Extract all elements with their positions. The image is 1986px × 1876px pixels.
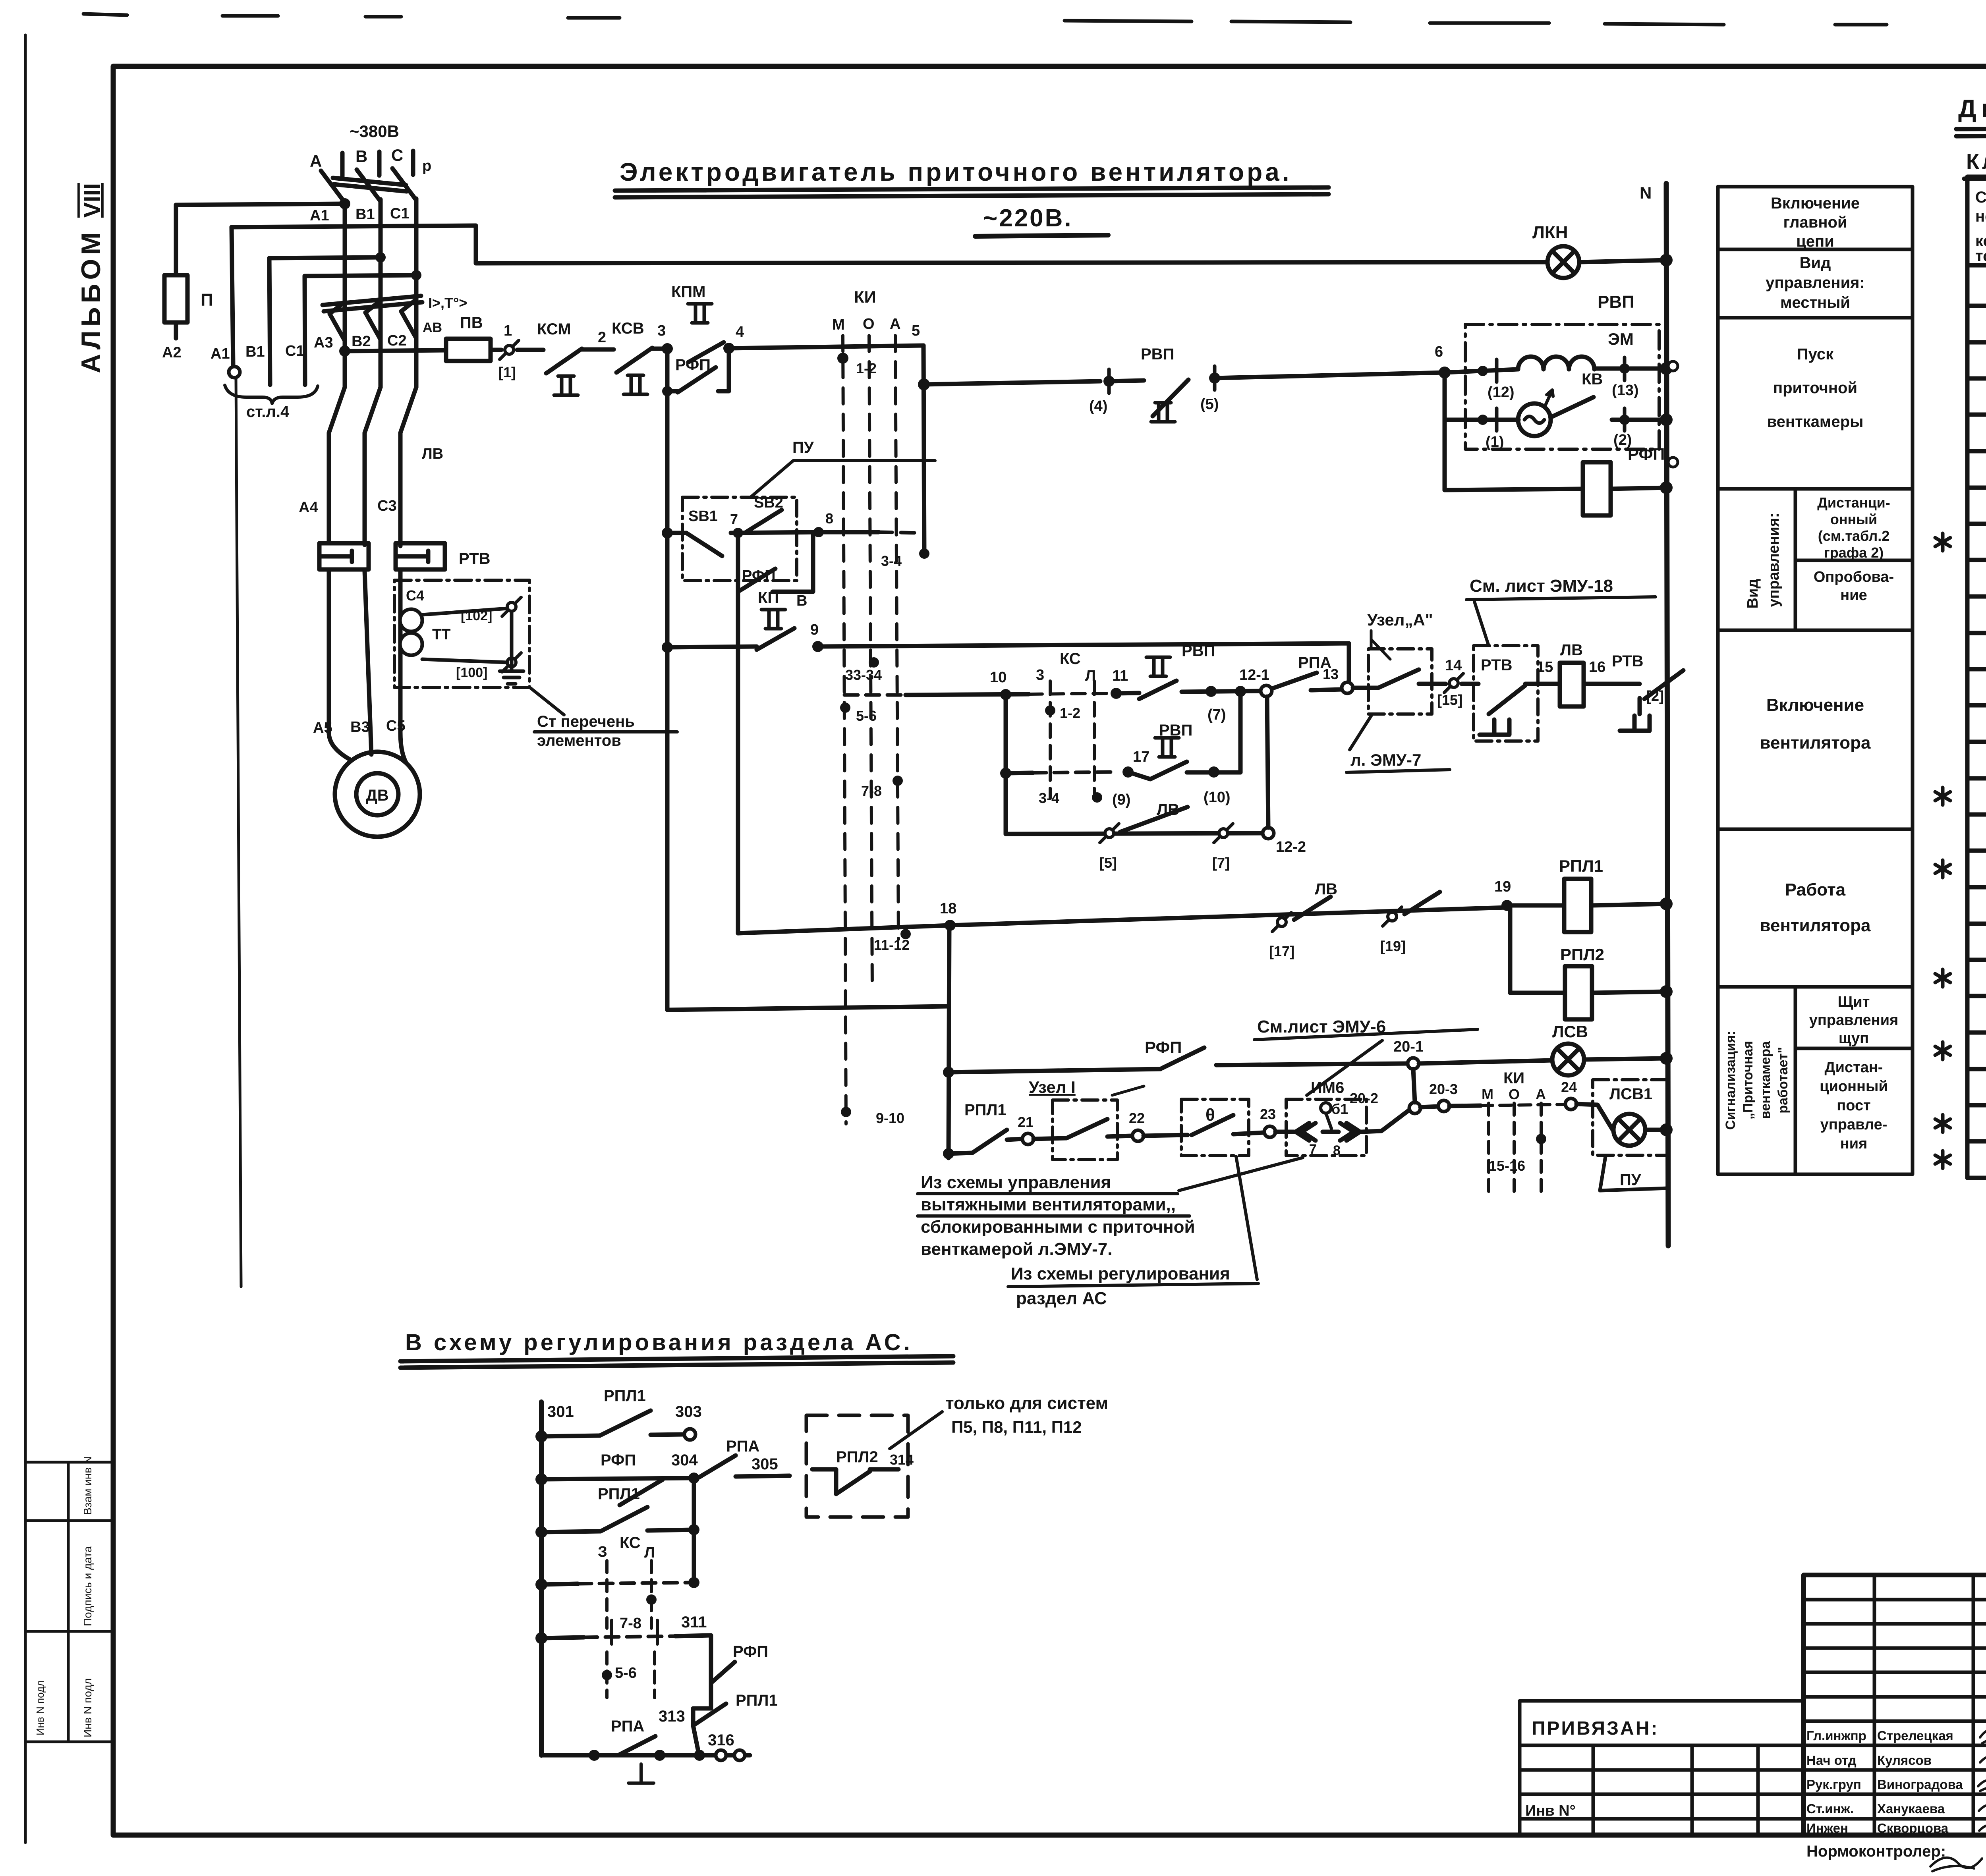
svg-text:А: А bbox=[310, 152, 322, 170]
contact RPL2 bbox=[812, 1469, 898, 1494]
svg-text:~220В.: ~220В. bbox=[983, 205, 1073, 232]
svg-text:[2]: [2] bbox=[1646, 688, 1664, 704]
svg-text:10: 10 bbox=[990, 669, 1007, 686]
tap wire to LKN rung bbox=[232, 226, 1547, 263]
circuit breaker AV bbox=[323, 296, 422, 341]
svg-text:18: 18 bbox=[940, 900, 956, 917]
svg-text:ЛСВ1: ЛСВ1 bbox=[1609, 1085, 1652, 1103]
svg-text:16: 16 bbox=[1589, 659, 1605, 676]
rung LV bypass [5][7] bbox=[1006, 833, 1263, 834]
junction bbox=[1660, 254, 1673, 266]
disconnect linkage bar bbox=[333, 178, 407, 191]
riser 304 down bbox=[692, 1478, 696, 1551]
svg-text:Гл.инжпр: Гл.инжпр bbox=[1806, 1728, 1866, 1743]
contact RVP make bbox=[1146, 657, 1170, 676]
terminal circle A1 bbox=[229, 367, 240, 378]
svg-text:11: 11 bbox=[1112, 668, 1128, 684]
svg-text:ЛВ: ЛВ bbox=[422, 446, 443, 462]
svg-text:С2: С2 bbox=[387, 332, 407, 349]
svg-text:В схему регулирования разде: В схему регулирования раздела АС. bbox=[405, 1330, 913, 1355]
source circle bbox=[1518, 403, 1551, 436]
plug 13 bbox=[1342, 682, 1353, 693]
svg-text:только для систем: только для систем bbox=[945, 1393, 1108, 1413]
EM coil bbox=[1518, 357, 1594, 369]
contact RFP bbox=[1162, 1048, 1204, 1068]
svg-text:21: 21 bbox=[1018, 1114, 1034, 1130]
svg-text:ПУ: ПУ bbox=[1620, 1171, 1642, 1189]
svg-text:вентилятора: вентилятора bbox=[1760, 733, 1871, 753]
svg-text:ЭМ: ЭМ bbox=[1608, 330, 1634, 348]
svg-text:КС: КС bbox=[620, 1534, 641, 1552]
lamp LSV bbox=[1552, 1044, 1584, 1075]
svg-text:нение: нение bbox=[1975, 208, 1986, 225]
coil RPL2 branch bbox=[1510, 905, 1565, 993]
KV contact blade bbox=[1551, 397, 1594, 417]
svg-text:А1: А1 bbox=[211, 345, 230, 362]
svg-text:Пуск: Пуск bbox=[1797, 345, 1834, 363]
wire 7-8 bbox=[731, 532, 819, 533]
contact RPA low bbox=[620, 1736, 655, 1754]
KV source row bbox=[1445, 418, 1518, 422]
svg-text:АЛЬБОМ: АЛЬБОМ bbox=[76, 228, 106, 373]
svg-text:р: р bbox=[422, 158, 431, 174]
svg-text:РВП: РВП bbox=[1159, 722, 1192, 739]
contact KPM bbox=[688, 304, 712, 323]
svg-text:Вид: Вид bbox=[1745, 579, 1761, 609]
svg-text:КИ: КИ bbox=[1503, 1069, 1524, 1087]
svg-text:Дистан-: Дистан- bbox=[1825, 1059, 1883, 1076]
svg-text:Рук.груп: Рук.груп bbox=[1806, 1777, 1861, 1792]
svg-text:А4: А4 bbox=[299, 499, 318, 516]
svg-text:С: С bbox=[391, 146, 403, 164]
svg-text:РПЛ1: РПЛ1 bbox=[964, 1101, 1007, 1119]
svg-text:РВП: РВП bbox=[1182, 642, 1215, 660]
svg-text:7-8: 7-8 bbox=[620, 1615, 641, 1632]
svg-text:2: 2 bbox=[598, 329, 606, 346]
svg-text:15: 15 bbox=[1536, 659, 1553, 676]
contact KP bbox=[761, 610, 785, 629]
KI row 27-28 bbox=[1935, 787, 1950, 805]
svg-text:~380В: ~380В bbox=[350, 122, 399, 141]
RTV thermal contact bbox=[1462, 684, 1525, 735]
KU contact 3-4 bbox=[919, 548, 929, 559]
svg-text:301: 301 bbox=[547, 1403, 574, 1421]
svg-text:1-2: 1-2 bbox=[1060, 705, 1080, 721]
svg-text:Электродвигатель приточного: Электродвигатель приточного вентилятора. bbox=[620, 158, 1292, 186]
bottom rung 316 bbox=[541, 1753, 750, 1758]
svg-text:17: 17 bbox=[1133, 749, 1149, 765]
page outer border left bbox=[24, 35, 27, 1843]
wire phase A bbox=[343, 201, 347, 386]
svg-text:11-12: 11-12 bbox=[874, 937, 910, 953]
node 11 bbox=[1111, 688, 1122, 699]
svg-text:КСМ: КСМ bbox=[537, 320, 571, 338]
node 17 bbox=[1122, 766, 1134, 778]
svg-text:Подпись и дата: Подпись и дата bbox=[81, 1546, 94, 1626]
svg-text:В3: В3 bbox=[350, 719, 370, 735]
svg-text:Ст.инж.: Ст.инж. bbox=[1806, 1801, 1854, 1816]
svg-text:РПЛ1: РПЛ1 bbox=[1559, 857, 1603, 875]
svg-text:ЛСВ: ЛСВ bbox=[1552, 1022, 1588, 1041]
node (7) bbox=[1182, 691, 1261, 692]
pu leader bbox=[752, 461, 935, 496]
wire lamp to N bbox=[1579, 260, 1666, 262]
plug 24 bbox=[1565, 1098, 1576, 1110]
svg-text:КС: КС bbox=[1060, 650, 1081, 668]
IM6 valve box bbox=[1286, 1099, 1366, 1156]
node 18 bbox=[945, 920, 956, 931]
side stamp strip bbox=[25, 1462, 113, 1742]
svg-text:О: О bbox=[1509, 1086, 1520, 1102]
svg-text:См. лист ЭМУ-18: См. лист ЭМУ-18 bbox=[1470, 576, 1613, 596]
contact RVP lower bbox=[1155, 738, 1179, 757]
KU mark 33-34 bbox=[869, 657, 879, 668]
svg-text:элементов: элементов bbox=[537, 732, 621, 749]
svg-text:Из схемы регулирования: Из схемы регулирования bbox=[1011, 1264, 1230, 1283]
svg-text:5: 5 bbox=[912, 322, 920, 339]
svg-text:А: А bbox=[1536, 1086, 1546, 1102]
svg-text:Опробова-: Опробова- bbox=[1814, 569, 1894, 585]
wire to plug 20-2 bbox=[1362, 1110, 1409, 1132]
svg-text:Сигнализация:: Сигнализация: bbox=[1723, 1031, 1738, 1130]
svg-text:8: 8 bbox=[825, 510, 833, 527]
svg-text:раздел АС: раздел АС bbox=[1016, 1289, 1107, 1308]
small grid verticals bbox=[1874, 1575, 1986, 1835]
contact RFP low bbox=[711, 1662, 735, 1683]
wire fuse to contact 1 bbox=[491, 348, 501, 352]
svg-text:[102]: [102] bbox=[461, 608, 492, 623]
svg-text:I>,T°>: I>,T°> bbox=[428, 295, 467, 311]
contact [2] to N bbox=[1644, 670, 1683, 699]
fuse P bbox=[164, 275, 187, 322]
svg-text:КПМ: КПМ bbox=[671, 283, 705, 301]
svg-text:управления:: управления: bbox=[1766, 513, 1782, 607]
svg-text:А1: А1 bbox=[310, 207, 329, 224]
svg-text:ния: ния bbox=[1840, 1135, 1868, 1152]
svg-text:5-6: 5-6 bbox=[856, 708, 877, 724]
RFP coil bbox=[1583, 462, 1611, 515]
motor feed wires bbox=[329, 569, 406, 762]
tap wire C bbox=[305, 275, 416, 276]
bypass contact RFP bbox=[667, 348, 729, 391]
svg-text:Дистанци-: Дистанци- bbox=[1817, 494, 1890, 511]
svg-text:приточной: приточной bbox=[1773, 379, 1857, 397]
svg-text:304: 304 bbox=[671, 1451, 698, 1469]
svg-text:[17]: [17] bbox=[1269, 943, 1294, 959]
title block outer bbox=[1804, 1575, 1986, 1835]
svg-text:цепи: цепи bbox=[1796, 233, 1834, 250]
svg-text:А2: А2 bbox=[162, 344, 182, 361]
KU contact 7-8 bbox=[893, 776, 903, 786]
KU contact 1-2 bbox=[837, 353, 848, 364]
tap vertical to A1 terminal bbox=[232, 227, 233, 365]
svg-text:РПЛ1: РПЛ1 bbox=[736, 1692, 778, 1709]
svg-text:РФП: РФП bbox=[742, 567, 776, 584]
svg-text:[100]: [100] bbox=[456, 665, 487, 680]
secondary contact 100 bbox=[502, 653, 521, 672]
svg-text:ИМ6: ИМ6 bbox=[1311, 1079, 1344, 1096]
svg-text:Взам инв N: Взам инв N bbox=[81, 1456, 94, 1515]
wire to node 6 bbox=[1215, 372, 1445, 378]
svg-text:управления: управления bbox=[1809, 1012, 1899, 1029]
svg-text:Нормоконтролер:: Нормоконтролер: bbox=[1806, 1843, 1946, 1860]
svg-text:РФП: РФП bbox=[675, 356, 711, 374]
svg-text:ние: ние bbox=[1840, 587, 1867, 604]
svg-text:1-2: 1-2 bbox=[856, 360, 877, 376]
svg-text:6: 6 bbox=[1435, 344, 1443, 360]
svg-text:ционный: ционный bbox=[1820, 1078, 1888, 1095]
svg-text:24: 24 bbox=[1561, 1079, 1577, 1095]
plug 23 bbox=[1264, 1126, 1275, 1137]
svg-text:венткамеры: венткамеры bbox=[1767, 413, 1864, 430]
tap vertical C1 bbox=[305, 276, 305, 385]
svg-text:313: 313 bbox=[659, 1708, 685, 1725]
rung 1: main control feed bbox=[339, 345, 350, 357]
svg-text:Л: Л bbox=[1085, 668, 1096, 684]
phase terminal ticks bbox=[342, 151, 413, 177]
theta box bbox=[1181, 1099, 1249, 1156]
svg-text:РПЛ2: РПЛ2 bbox=[836, 1448, 878, 1466]
svg-text:Нач отд: Нач отд bbox=[1806, 1753, 1857, 1768]
terminal marks (1) (2) bbox=[1497, 408, 1625, 431]
svg-text:3-4: 3-4 bbox=[881, 553, 902, 569]
svg-text:5-6: 5-6 bbox=[615, 1665, 637, 1681]
wire to fuse PV bbox=[345, 350, 446, 351]
KI row 47-48 bbox=[1935, 1151, 1950, 1168]
svg-text:1: 1 bbox=[504, 322, 512, 339]
svg-text:б1: б1 bbox=[1331, 1101, 1348, 1117]
svg-text:7-8: 7-8 bbox=[861, 783, 882, 799]
svg-text:РПЛ1: РПЛ1 bbox=[598, 1485, 640, 1503]
svg-text:С1: С1 bbox=[285, 343, 305, 359]
rung KS: fan on bbox=[844, 693, 906, 697]
svg-text:Инжен: Инжен bbox=[1806, 1821, 1848, 1835]
long leader to sheet 4 bbox=[236, 377, 241, 1287]
svg-text:Ключ избирания КИ.: Ключ избирания КИ. bbox=[1966, 150, 1986, 174]
switch in uzel A bbox=[1353, 670, 1446, 688]
svg-text:ЛКН: ЛКН bbox=[1532, 223, 1568, 242]
EM relay dash-dot box bbox=[1465, 324, 1659, 449]
SB rung bbox=[662, 527, 673, 538]
wire bbox=[1109, 380, 1144, 381]
plug 21 bbox=[1022, 1133, 1034, 1145]
signature rows bbox=[1806, 1728, 1986, 1835]
svg-text:главной: главной bbox=[1783, 214, 1847, 231]
bypass contact RFP2 bbox=[738, 532, 813, 592]
svg-text:РВП: РВП bbox=[1598, 292, 1634, 312]
brace to sheet 4 bbox=[225, 385, 318, 403]
node 10 bbox=[1000, 689, 1011, 700]
svg-text:311: 311 bbox=[681, 1614, 707, 1631]
mark (5) bbox=[1213, 366, 1217, 390]
svg-text:13: 13 bbox=[1323, 666, 1339, 682]
junction on phase A bbox=[339, 198, 350, 209]
node 4 bbox=[723, 343, 734, 354]
svg-text:работает": работает" bbox=[1775, 1047, 1791, 1113]
KI row 13-14 bbox=[1935, 533, 1950, 551]
svg-text:θ: θ bbox=[1206, 1105, 1215, 1125]
svg-text:РФП: РФП bbox=[1145, 1038, 1182, 1057]
svg-text:вентилятора: вентилятора bbox=[1760, 916, 1871, 935]
plug 14 bbox=[1444, 674, 1463, 693]
svg-text:графа 2): графа 2) bbox=[1824, 544, 1884, 561]
contact RPL1 low bbox=[693, 1704, 726, 1725]
svg-text:М: М bbox=[832, 317, 845, 333]
svg-text:(7): (7) bbox=[1207, 706, 1226, 723]
svg-text:(10): (10) bbox=[1204, 789, 1231, 806]
uzel A dash-dot box bbox=[1368, 649, 1432, 714]
node 9 bbox=[812, 641, 823, 652]
button SB1 bbox=[667, 531, 686, 535]
wire KSM-KSV bbox=[582, 347, 614, 352]
rung 304: RFP + RPA bbox=[535, 1473, 547, 1485]
wires below breaker bbox=[345, 338, 416, 387]
svg-text:[5]: [5] bbox=[1099, 855, 1117, 871]
svg-text:А3: А3 bbox=[314, 334, 333, 351]
svg-text:М: М bbox=[1482, 1086, 1493, 1102]
contact KSV bbox=[624, 375, 647, 394]
svg-text:КП: КП bbox=[758, 589, 779, 606]
svg-text:19: 19 bbox=[1494, 878, 1511, 895]
svg-text:(5): (5) bbox=[1200, 396, 1219, 413]
svg-text:В2: В2 bbox=[352, 333, 371, 350]
svg-text:9: 9 bbox=[810, 621, 819, 638]
svg-text:КВ: КВ bbox=[1582, 371, 1603, 388]
svg-text:щуп: щуп bbox=[1839, 1030, 1869, 1047]
svg-text:VIII: VIII bbox=[79, 183, 105, 218]
wire to N bbox=[1612, 418, 1666, 422]
svg-text:20-1: 20-1 bbox=[1393, 1038, 1424, 1055]
wire to node 3 bbox=[652, 347, 667, 351]
svg-text:3: 3 bbox=[1036, 667, 1044, 683]
RTV dash-dot box bbox=[1474, 646, 1538, 741]
privyazan block bbox=[1520, 1701, 1804, 1835]
svg-text:пост: пост bbox=[1837, 1097, 1870, 1114]
TT secondary wires bbox=[422, 608, 508, 662]
rung 301: contact RPL1 bbox=[535, 1430, 547, 1442]
svg-text:Включение: Включение bbox=[1766, 695, 1864, 715]
fuse PV bbox=[446, 339, 491, 361]
svg-text:(1): (1) bbox=[1486, 434, 1504, 450]
KI row 45-46 bbox=[1935, 1115, 1950, 1132]
svg-text:4: 4 bbox=[736, 324, 744, 340]
wire to node 13 bbox=[1311, 689, 1343, 690]
svg-text:АВ: АВ bbox=[423, 320, 442, 335]
fuse P feed wire bbox=[176, 204, 345, 205]
terminal marks (12) (13) bbox=[1497, 357, 1625, 382]
thermal relay RTV heater C bbox=[396, 543, 445, 569]
rung KS bbox=[535, 1579, 547, 1590]
svg-text:SB2: SB2 bbox=[754, 494, 783, 511]
plug 12-1 bbox=[1261, 685, 1272, 697]
page outer border top dashes bbox=[83, 14, 1986, 27]
svg-text:РФП: РФП bbox=[733, 1643, 768, 1660]
contact RVP bbox=[1151, 403, 1175, 422]
svg-text:(13): (13) bbox=[1612, 382, 1639, 399]
svg-text:Инв N°: Инв N° bbox=[1525, 1803, 1576, 1819]
svg-text:Диаграмма замыкания контакто: Диаграмма замыкания контактов. bbox=[1958, 94, 1986, 123]
svg-text:Ханукаева: Ханукаева bbox=[1877, 1801, 1945, 1816]
svg-text:РПА: РПА bbox=[726, 1438, 759, 1455]
contactor LV blades bbox=[329, 387, 416, 546]
svg-text:управле-: управле- bbox=[1820, 1116, 1887, 1133]
KU mark 5-6 bbox=[840, 703, 850, 713]
KU mark 11-12 bbox=[900, 929, 911, 939]
signatures squiggles bbox=[1930, 1730, 1986, 1871]
bus bbox=[539, 1402, 544, 1755]
fuse P lead bbox=[174, 205, 178, 338]
svg-text:7: 7 bbox=[730, 511, 738, 527]
wire to KSM bbox=[517, 348, 543, 352]
motor DV bbox=[335, 752, 420, 837]
svg-text:л. ЭМУ-7: л. ЭМУ-7 bbox=[1350, 751, 1421, 769]
lamp LKN bbox=[1547, 246, 1579, 278]
svg-text:7: 7 bbox=[1309, 1142, 1317, 1157]
svg-text:В: В bbox=[355, 147, 367, 166]
TT primary coils bbox=[400, 609, 422, 631]
svg-text:[19]: [19] bbox=[1380, 938, 1406, 954]
svg-text:20-3: 20-3 bbox=[1429, 1081, 1458, 1097]
svg-text:управления:: управления: bbox=[1766, 274, 1865, 291]
svg-text:РПЛ2: РПЛ2 bbox=[1560, 945, 1604, 964]
wire node4 to KU bbox=[729, 345, 923, 348]
wire 16 bbox=[1584, 682, 1623, 686]
rung C: lower KS row bbox=[1004, 695, 1008, 834]
svg-text:23: 23 bbox=[1260, 1106, 1276, 1122]
svg-text:РТВ: РТВ bbox=[459, 550, 490, 567]
rung 311 bbox=[535, 1632, 547, 1644]
svg-text:N: N bbox=[1640, 183, 1652, 202]
plug 20-2 bbox=[1409, 1102, 1420, 1114]
KI row 41-42 bbox=[1935, 1042, 1950, 1060]
KI row 37-38 bbox=[1935, 969, 1950, 987]
svg-text:В: В bbox=[796, 593, 807, 609]
svg-text:Вид: Вид bbox=[1800, 254, 1831, 272]
svg-text:А: А bbox=[890, 316, 900, 332]
KU selector dashed lines M O A bbox=[843, 336, 898, 1124]
rung KP bbox=[662, 642, 673, 653]
svg-text:(9): (9) bbox=[1112, 791, 1130, 808]
svg-text:ЛВ: ЛВ bbox=[1560, 641, 1583, 659]
svg-text:Соеди-: Соеди- bbox=[1975, 189, 1986, 206]
disconnect switch QS leads bbox=[321, 168, 416, 203]
svg-text:РПЛ1: РПЛ1 bbox=[604, 1387, 646, 1405]
svg-text:венткамера: венткамера bbox=[1758, 1041, 1773, 1119]
svg-text:А5: А5 bbox=[313, 720, 332, 736]
svg-text:Узел„А": Узел„А" bbox=[1367, 610, 1433, 629]
svg-text:Кулясов: Кулясов bbox=[1877, 1753, 1932, 1768]
plug contact 17 bbox=[1272, 913, 1291, 932]
svg-text:вытяжными вентиляторами,,: вытяжными вентиляторами,, bbox=[921, 1195, 1176, 1214]
EM coil wire bbox=[1445, 369, 1517, 372]
contact RPL1 bbox=[972, 1130, 1007, 1153]
svg-text:С3: С3 bbox=[377, 498, 397, 514]
svg-text:Работа: Работа bbox=[1785, 880, 1846, 899]
svg-text:15-16: 15-16 bbox=[1489, 1158, 1525, 1174]
svg-text:SB1: SB1 bbox=[688, 508, 718, 525]
svg-text:Узел I: Узел I bbox=[1029, 1078, 1076, 1096]
valve arrows bbox=[1296, 1123, 1316, 1141]
svg-text:(4): (4) bbox=[1089, 398, 1107, 415]
wire coil to N bbox=[1594, 367, 1666, 371]
svg-text:ПРИВЯЗАН:: ПРИВЯЗАН: bbox=[1532, 1718, 1659, 1739]
resistor LV bbox=[1560, 663, 1584, 706]
wire 15 bbox=[1525, 682, 1560, 686]
KI row 31-32 bbox=[1935, 860, 1950, 878]
svg-text:[7]: [7] bbox=[1212, 855, 1230, 871]
svg-text:ПУ: ПУ bbox=[792, 439, 814, 456]
svg-text:В1: В1 bbox=[245, 344, 265, 360]
